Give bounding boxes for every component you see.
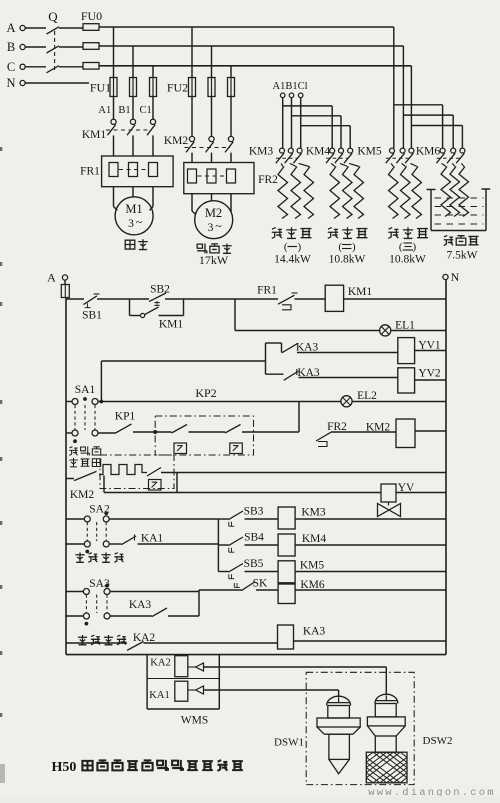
svg-text:N: N bbox=[6, 76, 15, 90]
svg-text:KM6: KM6 bbox=[300, 579, 325, 591]
svg-text:B: B bbox=[7, 40, 15, 54]
svg-text:(: ( bbox=[338, 241, 342, 253]
svg-text:): ) bbox=[412, 241, 416, 253]
svg-text:KP2: KP2 bbox=[195, 386, 216, 400]
svg-text:C1: C1 bbox=[139, 105, 151, 116]
svg-text:FR2: FR2 bbox=[258, 174, 278, 186]
svg-text:FU1: FU1 bbox=[90, 81, 111, 95]
svg-text:14.4kW: 14.4kW bbox=[274, 254, 311, 266]
svg-text:17kW: 17kW bbox=[199, 253, 229, 267]
svg-text:KM4: KM4 bbox=[306, 146, 331, 158]
svg-text:KM3: KM3 bbox=[301, 507, 326, 519]
svg-text:WMS: WMS bbox=[181, 715, 208, 727]
svg-text:FU0: FU0 bbox=[81, 9, 102, 23]
svg-text:~: ~ bbox=[136, 215, 143, 229]
svg-text:KA2: KA2 bbox=[150, 658, 170, 669]
svg-text:Q: Q bbox=[48, 9, 58, 24]
svg-text:SB4: SB4 bbox=[244, 532, 264, 544]
svg-text:FR2: FR2 bbox=[327, 421, 347, 433]
svg-text:DSW1: DSW1 bbox=[274, 737, 304, 749]
svg-text:~: ~ bbox=[215, 219, 222, 233]
svg-text:): ) bbox=[297, 241, 301, 253]
svg-text:KM5: KM5 bbox=[357, 146, 382, 158]
svg-text:KA1: KA1 bbox=[141, 533, 164, 545]
svg-text:KA2: KA2 bbox=[133, 632, 156, 644]
svg-text:KM1: KM1 bbox=[348, 286, 373, 298]
svg-text:FR1: FR1 bbox=[257, 285, 277, 297]
svg-text:KM1: KM1 bbox=[159, 319, 184, 331]
svg-text:SA1: SA1 bbox=[75, 384, 96, 396]
svg-text:KA1: KA1 bbox=[149, 690, 169, 701]
svg-text:SB3: SB3 bbox=[244, 506, 264, 518]
svg-text:KA3: KA3 bbox=[303, 626, 326, 638]
svg-text:7.5kW: 7.5kW bbox=[447, 250, 478, 262]
svg-text:10.8kW: 10.8kW bbox=[329, 254, 366, 266]
svg-text:DSW2: DSW2 bbox=[423, 735, 453, 747]
svg-text:KA3: KA3 bbox=[129, 599, 152, 611]
svg-text:KM2: KM2 bbox=[70, 489, 95, 501]
svg-text:M2: M2 bbox=[205, 206, 222, 220]
svg-text:B1: B1 bbox=[118, 105, 130, 116]
svg-text:FU2: FU2 bbox=[167, 81, 188, 95]
svg-text:KM4: KM4 bbox=[302, 533, 327, 545]
svg-text:(: ( bbox=[284, 241, 288, 253]
svg-text:YV1: YV1 bbox=[418, 340, 441, 352]
svg-text:): ) bbox=[352, 241, 356, 253]
svg-text:(: ( bbox=[399, 241, 403, 253]
svg-text:A1: A1 bbox=[98, 105, 111, 116]
svg-text:A1B1Cl: A1B1Cl bbox=[272, 81, 307, 92]
svg-text:3: 3 bbox=[128, 218, 134, 230]
svg-text:YV2: YV2 bbox=[418, 368, 441, 380]
svg-text:SK: SK bbox=[253, 578, 268, 590]
svg-text:KA3: KA3 bbox=[296, 342, 319, 354]
svg-text:KM1: KM1 bbox=[82, 129, 107, 141]
svg-text:KM2: KM2 bbox=[164, 135, 189, 147]
svg-text:A: A bbox=[6, 21, 15, 35]
svg-text:SB5: SB5 bbox=[244, 558, 264, 570]
svg-text:N: N bbox=[451, 270, 460, 284]
svg-text:KM6: KM6 bbox=[416, 146, 441, 158]
svg-text:FR1: FR1 bbox=[80, 166, 100, 178]
svg-text:3: 3 bbox=[208, 222, 214, 234]
svg-text:EL2: EL2 bbox=[357, 390, 377, 402]
svg-text:SB1: SB1 bbox=[82, 310, 102, 322]
svg-text:SB2: SB2 bbox=[150, 284, 170, 296]
svg-text:KM3: KM3 bbox=[249, 146, 274, 158]
svg-text:C: C bbox=[7, 60, 15, 74]
svg-text:M1: M1 bbox=[125, 202, 142, 216]
svg-text:KP1: KP1 bbox=[115, 411, 136, 423]
svg-text:H50: H50 bbox=[52, 760, 77, 775]
svg-text:A: A bbox=[47, 271, 56, 285]
svg-text:KM5: KM5 bbox=[300, 560, 325, 572]
svg-text:EL1: EL1 bbox=[395, 320, 415, 332]
svg-text:10.8kW: 10.8kW bbox=[389, 254, 426, 266]
